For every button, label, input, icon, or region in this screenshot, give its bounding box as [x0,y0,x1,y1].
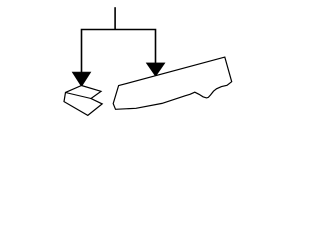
folded plate fold line [66,93,92,99]
plank part (right) outline [113,57,232,109]
wire: horizontal branch with two vertical drops [82,30,156,73]
arrowhead right [146,63,165,76]
wire: top vertical stub [114,7,116,29]
arrowhead left [72,72,91,87]
folded plate part (left) outline [64,86,102,116]
